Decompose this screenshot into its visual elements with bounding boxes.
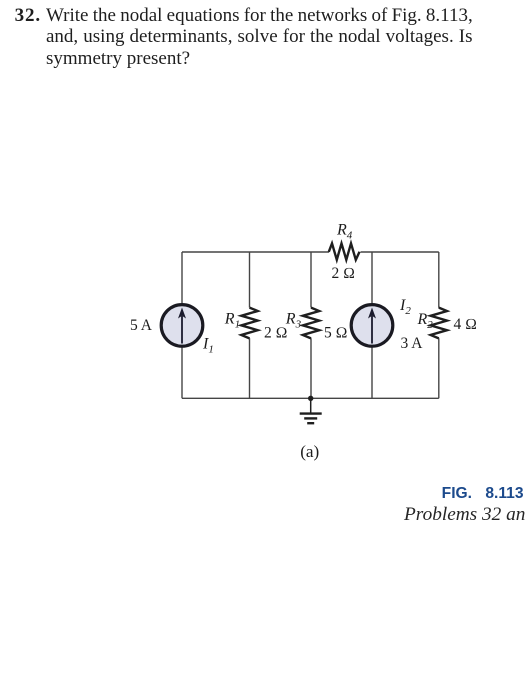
svg-text:R1: R1 <box>224 311 240 331</box>
wire I2 branch <box>371 252 373 304</box>
resistor R2 <box>431 308 447 339</box>
svg-text:I2: I2 <box>399 297 411 317</box>
wire top rail right segment <box>361 251 439 253</box>
wire bottom rail <box>182 397 439 399</box>
svg-text:I1: I1 <box>202 335 214 355</box>
resistor R4 <box>329 243 360 259</box>
current source I2 <box>351 305 393 347</box>
wire R1 branch <box>249 252 251 308</box>
svg-text:4 Ω: 4 Ω <box>454 316 478 333</box>
svg-text:R2: R2 <box>417 311 434 331</box>
resistor R1 <box>241 308 257 339</box>
svg-text:(a): (a) <box>300 442 319 461</box>
svg-text:2 Ω: 2 Ω <box>332 265 356 282</box>
svg-text:R4: R4 <box>336 222 353 242</box>
current source I1 <box>161 305 203 347</box>
resistor R3 <box>303 308 319 339</box>
wire top rail left segment <box>182 251 329 253</box>
junction dot ground node <box>308 396 313 401</box>
ground <box>310 398 312 412</box>
arrow I1 <box>181 316 183 344</box>
arrow I2 <box>371 316 373 344</box>
wire R3 branch <box>310 252 312 308</box>
svg-text:5 A: 5 A <box>130 317 153 334</box>
wire left branch (I1) <box>181 252 183 304</box>
svg-text:5 Ω: 5 Ω <box>324 325 348 342</box>
svg-text:3 A: 3 A <box>401 335 424 352</box>
svg-text:2 Ω: 2 Ω <box>264 325 288 342</box>
wire R2 branch <box>438 252 440 308</box>
